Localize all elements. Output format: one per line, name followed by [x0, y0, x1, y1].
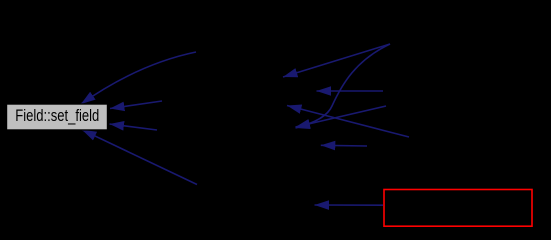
wire: edge from bottom caller node into Field::set_field bottom: [82, 130, 197, 185]
wire: edge F from red node to bottom node: [315, 204, 384, 206]
wire: edge from middle caller into Field::set_field right side (upper): [110, 101, 162, 109]
wire: edge D1 S-curve from right node down to middle node: [296, 44, 391, 128]
wire: edge B horizontal to middle node: [317, 90, 384, 92]
svg-text:Field::set_field: Field::set_field: [15, 107, 99, 125]
node Field::set_field (grey box): [7, 104, 108, 130]
wire: edge E short horizontal: [321, 144, 367, 147]
wire: edge A from right node to upper middle node: [283, 44, 390, 77]
wire: curved edge from top caller node into Field::set_field top: [81, 52, 196, 104]
wire: edge D2 from right node to middle node: [296, 106, 387, 127]
wire: edge from middle caller into Field::set_field right side (lower): [110, 124, 158, 130]
node: red-bordered caller box (truncated node): [384, 190, 532, 227]
wire: edge C diagonal to middle node: [287, 106, 409, 138]
